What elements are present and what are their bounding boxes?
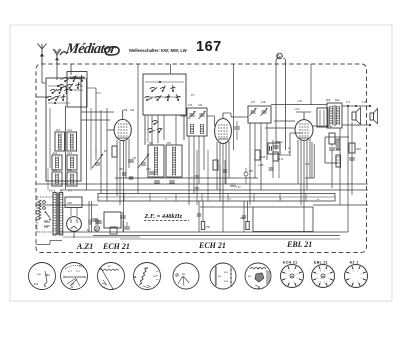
HT riser w9: [233, 64, 235, 150]
border stub left: [36, 96, 49, 98]
svg-text:101: 101: [188, 103, 193, 107]
svg-text:C48: C48: [123, 110, 128, 112]
V2 top wire: [222, 113, 224, 119]
schematic dashed border: [36, 64, 367, 253]
svg-text:504: 504: [326, 98, 331, 102]
speaker LS2 external: [370, 113, 374, 120]
wire riser w4: [100, 110, 102, 193]
aerial coil L5: [67, 155, 77, 170]
svg-text:476: 476: [305, 162, 310, 166]
bus wire 4: [313, 204, 368, 206]
T2 trimmer C8: [251, 110, 256, 112]
IF transformer T2: [248, 106, 271, 123]
scan page edge: [10, 25, 392, 301]
detector R4: [273, 152, 278, 161]
IF transformer T1: [187, 108, 207, 136]
osc riser w6: [137, 64, 139, 193]
band switch S1b: [60, 87, 62, 89]
detector cap C10: [273, 145, 279, 147]
bus wire 5: [200, 206, 253, 208]
tone network box: [325, 136, 349, 138]
svg-text:108: 108: [261, 100, 266, 104]
svg-text:102: 102: [198, 103, 203, 107]
filter cap C14: [95, 219, 97, 225]
tube base diagram 5: [173, 263, 199, 289]
svg-text:C8: C8: [133, 156, 137, 160]
svg-text:ECH 21: ECH 21: [102, 242, 130, 251]
left column wire: [49, 108, 51, 168]
V3 pin wires: [297, 140, 299, 184]
svg-text:107: 107: [251, 100, 256, 104]
cable harness box: [98, 194, 335, 202]
speaker wire 2: [342, 124, 370, 126]
V2 pin wires: [216, 142, 218, 190]
mid components: [149, 171, 155, 173]
border riser w0: [70, 64, 72, 75]
osc coil L8: [148, 145, 164, 177]
grid wire V1-T1: [180, 115, 187, 117]
svg-text:153: 153: [167, 141, 172, 145]
svg-text:F12: F12: [68, 128, 73, 132]
svg-text:1,57: 1,57: [236, 186, 241, 189]
aerial coil L6: [52, 172, 62, 186]
tube V2 ECH21: [215, 119, 232, 144]
tube base diagram 10: [345, 265, 368, 288]
osc box: [143, 74, 186, 115]
osc cap oval: [244, 172, 248, 176]
V1 pin wires: [116, 140, 118, 196]
svg-text:C81: C81: [356, 147, 361, 151]
svg-text:A14: A14: [53, 151, 58, 155]
terminal G: [277, 53, 283, 59]
tube base diagram 4: [134, 263, 161, 290]
wire riser w1: [86, 79, 88, 190]
V3 grid R5: [272, 140, 274, 178]
switch wires S1b: [69, 76, 85, 78]
svg-text:4µ: 4µ: [87, 228, 90, 232]
V3 grid wire: [274, 120, 295, 122]
mid risers: [196, 150, 198, 205]
svg-text:Wellenschalter: KW; MW; LW: Wellenschalter: KW; MW; LW: [129, 48, 187, 53]
PSU resistor R7: [110, 227, 117, 234]
wire riser w3: [90, 108, 92, 170]
svg-text:A16: A16: [53, 168, 58, 172]
filter choke wire: [63, 236, 140, 238]
bottom box: [253, 207, 313, 232]
filter cap C13: [88, 219, 90, 225]
V3 plate wire: [313, 125, 331, 127]
aerial coil L7: [67, 172, 77, 186]
wire top loop: [42, 82, 46, 84]
svg-text:220: 220: [44, 220, 49, 223]
tube base diagram 2: [61, 263, 88, 290]
svg-text:167: 167: [196, 39, 222, 55]
wire riser w5: [106, 108, 108, 201]
svg-text:Z.F. = 448kHz: Z.F. = 448kHz: [144, 213, 183, 220]
tube V1 ECH21: [114, 119, 131, 140]
switch wires S1a: [48, 85, 66, 87]
svg-text:C58: C58: [206, 226, 211, 229]
V3 pin pair: [311, 142, 313, 178]
svg-text:152: 152: [149, 141, 154, 145]
heater line 1: [93, 235, 340, 237]
osc riser w7: [170, 64, 172, 74]
gram riser w10: [310, 64, 312, 105]
right risers: [331, 144, 333, 146]
svg-text:+172: +172: [294, 108, 300, 111]
tone caps: [336, 139, 341, 141]
tube base diagram 3: [98, 263, 125, 290]
T1 trimmer C6: [200, 113, 205, 115]
svg-text:177: 177: [346, 100, 351, 104]
V3 cap C11: [269, 167, 274, 169]
bus wire 3b: [98, 196, 335, 198]
svg-text:C55: C55: [67, 201, 72, 205]
output transformer T3: [327, 103, 342, 128]
HT bus: [60, 231, 348, 233]
antenna A2: [56, 55, 58, 64]
svg-text:4M: 4M: [218, 276, 221, 278]
svg-text:A.Z1: A.Z1: [76, 242, 93, 251]
svg-text:1M: 1M: [71, 284, 74, 286]
gram lead 2: [283, 59, 285, 151]
tube base diagram 9: [312, 265, 335, 288]
PSU cap C16: [120, 215, 126, 217]
svg-text:8M: 8M: [248, 276, 251, 278]
osc padder C4: [154, 180, 160, 182]
wire riser w2: [95, 88, 97, 160]
svg-text:41N: 41N: [224, 272, 228, 274]
heater line 2: [120, 238, 340, 240]
PSU box 2: [104, 212, 121, 228]
gram lead 1: [276, 59, 278, 151]
T2 trimmer C9: [262, 110, 267, 112]
V2 screen cap C7: [234, 126, 240, 128]
rectifier V4 AZ1: [67, 217, 82, 232]
RF input box L1: [46, 78, 81, 181]
aerial coil L2: [55, 132, 65, 151]
svg-text:F14: F14: [68, 151, 73, 155]
PSU cap C15: [92, 218, 98, 220]
tube base diagram 6: [210, 263, 236, 289]
T2 pin wires: [249, 123, 251, 205]
svg-text:+135: +135: [258, 164, 264, 167]
svg-text:155: 155: [261, 155, 266, 159]
svg-text:C52: C52: [146, 167, 151, 171]
tuning gang C3: [138, 154, 149, 168]
RF box 2: [67, 72, 87, 108]
svg-text:ECH 21: ECH 21: [198, 241, 226, 250]
svg-text:179: 179: [362, 100, 367, 104]
V4 wires: [70, 208, 72, 216]
AVC bus: [115, 177, 258, 179]
bus wire 2: [36, 183, 368, 185]
band switch S1c: [146, 99, 148, 101]
hanger cluster A: [198, 201, 200, 232]
svg-text:E11: E11: [34, 283, 39, 286]
link box2-osc: [96, 92, 101, 94]
filter box: [65, 197, 82, 208]
pilot lamp: [94, 226, 99, 231]
band switch S1a: [48, 99, 50, 101]
tube base diagram 8: [281, 265, 304, 288]
svg-text:502: 502: [335, 98, 340, 102]
svg-text:ECH 21: ECH 21: [283, 261, 297, 265]
svg-text:3M: 3M: [153, 276, 156, 278]
PSU wire: [122, 212, 124, 215]
osc riser w8: [151, 115, 153, 145]
V1 pin caps: [122, 172, 126, 174]
V3 top cap: [303, 112, 305, 120]
antenna A1: [41, 49, 43, 64]
svg-text:125: 125: [44, 226, 49, 229]
output R6: [329, 133, 335, 144]
hanger cluster B: [243, 201, 245, 232]
mains switch: [46, 212, 51, 218]
svg-text:+171: +171: [297, 100, 303, 103]
right components: [349, 143, 355, 153]
transformer top wire: [54, 190, 56, 193]
bus wire 3: [60, 189, 368, 191]
antenna lead wires: [41, 64, 43, 83]
T1 pin wires: [188, 136, 190, 205]
svg-text:41N: 41N: [224, 281, 228, 283]
tube V3 EBL21: [295, 120, 313, 141]
osc coil L9: [166, 145, 182, 177]
V1 cathode resistor R1: [112, 146, 117, 157]
aerial coil L3: [67, 132, 77, 151]
svg-text:F16: F16: [68, 168, 73, 172]
aerial coil L4: [52, 155, 62, 170]
T1 trimmer C5: [190, 113, 195, 115]
svg-text:C49: C49: [130, 110, 135, 112]
svg-text:EBL 21: EBL 21: [314, 261, 328, 265]
svg-text:C66: C66: [240, 217, 245, 220]
switch wires S1c: [145, 81, 184, 83]
V3 box frame: [290, 132, 302, 134]
top HT wire: [271, 104, 327, 106]
V1 grid cap wire: [122, 110, 124, 119]
output cap C12: [329, 147, 335, 149]
power transformer T4: [53, 193, 56, 236]
PSU riser a: [88, 201, 90, 232]
detector R3: [255, 150, 260, 160]
svg-text:171: 171: [279, 157, 284, 161]
corner jog wire: [36, 244, 50, 246]
svg-text:A12: A12: [56, 128, 61, 132]
svg-text:KT: KT: [191, 93, 195, 97]
svg-text:AZ 1: AZ 1: [350, 261, 359, 265]
speaker LS1: [352, 112, 356, 120]
tuning gang C1: [92, 154, 103, 168]
tube base diagram 7: [245, 263, 271, 289]
wire mid links: [81, 111, 114, 113]
osc lower contacts: [149, 131, 151, 133]
V1 bypass cap C2: [128, 159, 134, 161]
tube base diagram 1: [29, 263, 56, 290]
T1 coil: [190, 124, 192, 134]
V2 cathode R2: [213, 160, 218, 170]
mains plug: [38, 200, 41, 220]
choke box: [317, 108, 328, 127]
svg-text:EBL 21: EBL 21: [286, 240, 312, 249]
